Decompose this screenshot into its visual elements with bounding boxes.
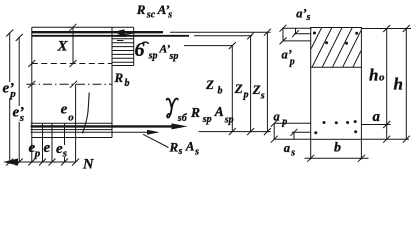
label e_p bottom <box>29 140 41 159</box>
svg-text:s: s <box>62 148 67 160</box>
label Z_s <box>252 82 266 101</box>
N arrowhead <box>3 159 18 166</box>
label gamma_sb R_sp A_sp <box>167 98 234 125</box>
leader to R_s A_s label <box>143 134 169 147</box>
svg-text:p: p <box>281 117 287 128</box>
b dimension line <box>305 157 369 159</box>
e_s boundary vertical <box>64 123 66 162</box>
tick h top <box>403 25 410 32</box>
rebar dots A_sp row <box>323 121 326 124</box>
svg-text:s: s <box>306 12 311 23</box>
tick on N line at e'_p <box>6 159 13 166</box>
svg-text:Z: Z <box>252 82 261 97</box>
svg-text:p: p <box>289 57 295 68</box>
a's short vertical <box>295 28 297 34</box>
tick on centroid line <box>70 81 77 88</box>
tick h_o top <box>383 25 390 32</box>
svg-text:h: h <box>394 75 403 94</box>
tick b right <box>358 155 365 162</box>
force arrow R_s A_s <box>31 131 149 133</box>
a's top extension line <box>282 27 311 29</box>
tick a's mid <box>292 30 299 37</box>
tick h_o bottom <box>383 136 390 143</box>
svg-text:a: a <box>373 109 381 125</box>
top extension line right <box>361 28 411 30</box>
Z_s tick top <box>264 29 271 36</box>
h_o dimension line <box>386 29 388 140</box>
top steel line A'p (thick) <box>32 35 189 37</box>
tick centroid at left edge <box>28 81 35 88</box>
X dim tick top <box>70 24 77 31</box>
force arrow gamma R_sp A_sp (thick) <box>31 125 172 127</box>
rebar dot A'p left <box>325 41 328 44</box>
svg-text:a: a <box>274 110 280 124</box>
tick on N line at e'_s <box>16 159 23 166</box>
svg-text:Z: Z <box>205 77 214 92</box>
e'_p tick top <box>6 30 13 37</box>
e'_s dimension line <box>18 38 20 163</box>
label e'_s <box>12 104 25 124</box>
neutral axis dashed line <box>32 63 112 65</box>
svg-text:o: o <box>379 72 385 84</box>
tick a' bottom <box>280 37 287 44</box>
e/e_s boundary vertical <box>51 123 53 162</box>
svg-text:s: s <box>19 112 24 124</box>
a level extension line <box>361 124 390 126</box>
svg-text:p: p <box>34 147 41 159</box>
Z_b extension line <box>184 45 232 47</box>
label sigma_sp A'sp <box>135 39 179 62</box>
svg-text:s: s <box>260 90 265 101</box>
svg-text:sp: sp <box>224 115 234 126</box>
tick a_p top <box>271 120 278 127</box>
label a_s <box>284 141 296 159</box>
svg-text:R: R <box>169 139 179 154</box>
label R_sc A's <box>136 2 173 20</box>
svg-text:s: s <box>178 146 183 157</box>
svg-text:b: b <box>334 141 341 156</box>
svg-text:sб: sб <box>177 113 188 124</box>
tick a' top <box>280 25 287 32</box>
tick on dashed line at X <box>70 60 77 67</box>
short dash below arrows <box>117 40 124 42</box>
squiggle N line of action <box>83 93 90 134</box>
rebar dot A's right <box>355 32 358 35</box>
svg-text:N: N <box>82 156 94 172</box>
force arrow sigma_sp A'sp leader <box>116 32 137 36</box>
rebar dot A's left <box>313 32 316 35</box>
svg-text:e: e <box>44 140 51 156</box>
rebar dot A_s right <box>354 130 357 133</box>
svg-text:e: e <box>61 101 68 117</box>
tick a_s <box>291 129 298 136</box>
svg-text:sp: sp <box>202 114 212 125</box>
Z_s tick bottom <box>264 128 271 135</box>
Z_s dimension line <box>266 32 268 131</box>
a' dimension vertical <box>282 28 284 41</box>
svg-text:X: X <box>57 39 69 55</box>
e'_p dimension line <box>9 33 11 162</box>
svg-text:p: p <box>243 89 249 100</box>
Z_b tick bottom <box>229 128 236 135</box>
e_p/e boundary vertical <box>42 123 44 162</box>
label h_o <box>369 66 385 85</box>
svg-text:sp: sp <box>148 51 158 62</box>
top steel line A's (thick) <box>32 31 163 33</box>
top steel line A's extension to Z_s <box>170 31 271 33</box>
A's level extension line <box>294 33 311 35</box>
Z_b tick top <box>229 42 236 49</box>
b extension verticals <box>311 139 362 159</box>
beam elevation outline <box>32 27 134 137</box>
svg-text:R: R <box>136 2 146 17</box>
svg-text:Z: Z <box>234 81 243 96</box>
svg-text:A: A <box>214 104 224 119</box>
Z_p dimension line <box>250 36 252 132</box>
bottom steel line A_s <box>31 129 112 131</box>
A'p level extension line <box>283 40 311 42</box>
bottom extension line right <box>361 138 409 140</box>
svg-text:R: R <box>190 105 200 120</box>
label R_b <box>114 70 130 89</box>
bottom reference line to Z lines <box>199 131 271 133</box>
svg-text:s: s <box>194 147 199 158</box>
label Z_b <box>205 77 223 96</box>
X dimension line <box>72 27 74 63</box>
Z_p tick bottom <box>247 128 254 135</box>
R_b stress block <box>112 27 134 65</box>
svg-text:o: o <box>68 112 74 124</box>
svg-text:b: b <box>218 85 223 96</box>
N force line <box>15 161 76 163</box>
svg-text:a: a <box>284 141 290 155</box>
svg-text:R: R <box>114 70 124 85</box>
label Z_p <box>234 81 249 100</box>
cross-section outline <box>311 28 362 140</box>
tick h_o at a <box>383 121 390 128</box>
label R_s A_s <box>169 139 200 158</box>
tick a_p bottom <box>271 136 278 143</box>
compression zone boundary <box>311 66 362 68</box>
svg-text:s: s <box>290 148 295 159</box>
svg-text:a’: a’ <box>296 7 306 21</box>
svg-text:h: h <box>369 66 378 85</box>
svg-text:s: s <box>167 9 172 20</box>
bottom extension line left <box>274 138 311 140</box>
centroid dash-dot line <box>27 83 113 85</box>
tick on N line at N action <box>72 159 79 166</box>
tick on N line at beam edge <box>28 159 35 166</box>
Z_b dimension line <box>231 46 233 132</box>
tick h bottom <box>403 136 410 143</box>
label e_o <box>61 101 75 123</box>
svg-text:sc: sc <box>146 9 156 20</box>
label a'_p <box>282 48 295 68</box>
svg-text:sp: sp <box>169 51 179 62</box>
tick on N line at e_p <box>39 159 46 166</box>
label a_p <box>274 110 288 128</box>
svg-text:A: A <box>185 139 195 154</box>
a_p extension line <box>274 122 311 124</box>
tick on N line at e <box>49 159 56 166</box>
top steel line A'p extension to Z_p <box>194 35 252 37</box>
bottom steel line A_sp <box>31 122 112 124</box>
tick b left <box>307 155 314 162</box>
a_s extension line <box>292 131 311 133</box>
e_p boundary vertical (beam edge extension) <box>31 138 33 163</box>
tick on N line at e_s <box>61 159 68 166</box>
tick on dashed line at left edge <box>28 60 35 67</box>
a_p dimension vertical <box>273 123 275 139</box>
a_s short vertical <box>293 132 295 139</box>
rebar dot A_s left <box>314 131 317 134</box>
svg-text:b: b <box>125 78 130 89</box>
label e'_p <box>2 81 16 101</box>
label a'_s <box>296 7 310 24</box>
rebar dot A'p right <box>345 42 348 45</box>
Z_p tick top <box>247 32 254 39</box>
N action vertical <box>75 84 77 162</box>
h dimension line <box>405 29 407 140</box>
force arrow R_sc A's <box>112 29 125 35</box>
e'_s tick top <box>16 34 23 41</box>
svg-text:p: p <box>9 88 16 100</box>
label e_s bottom <box>56 141 69 160</box>
